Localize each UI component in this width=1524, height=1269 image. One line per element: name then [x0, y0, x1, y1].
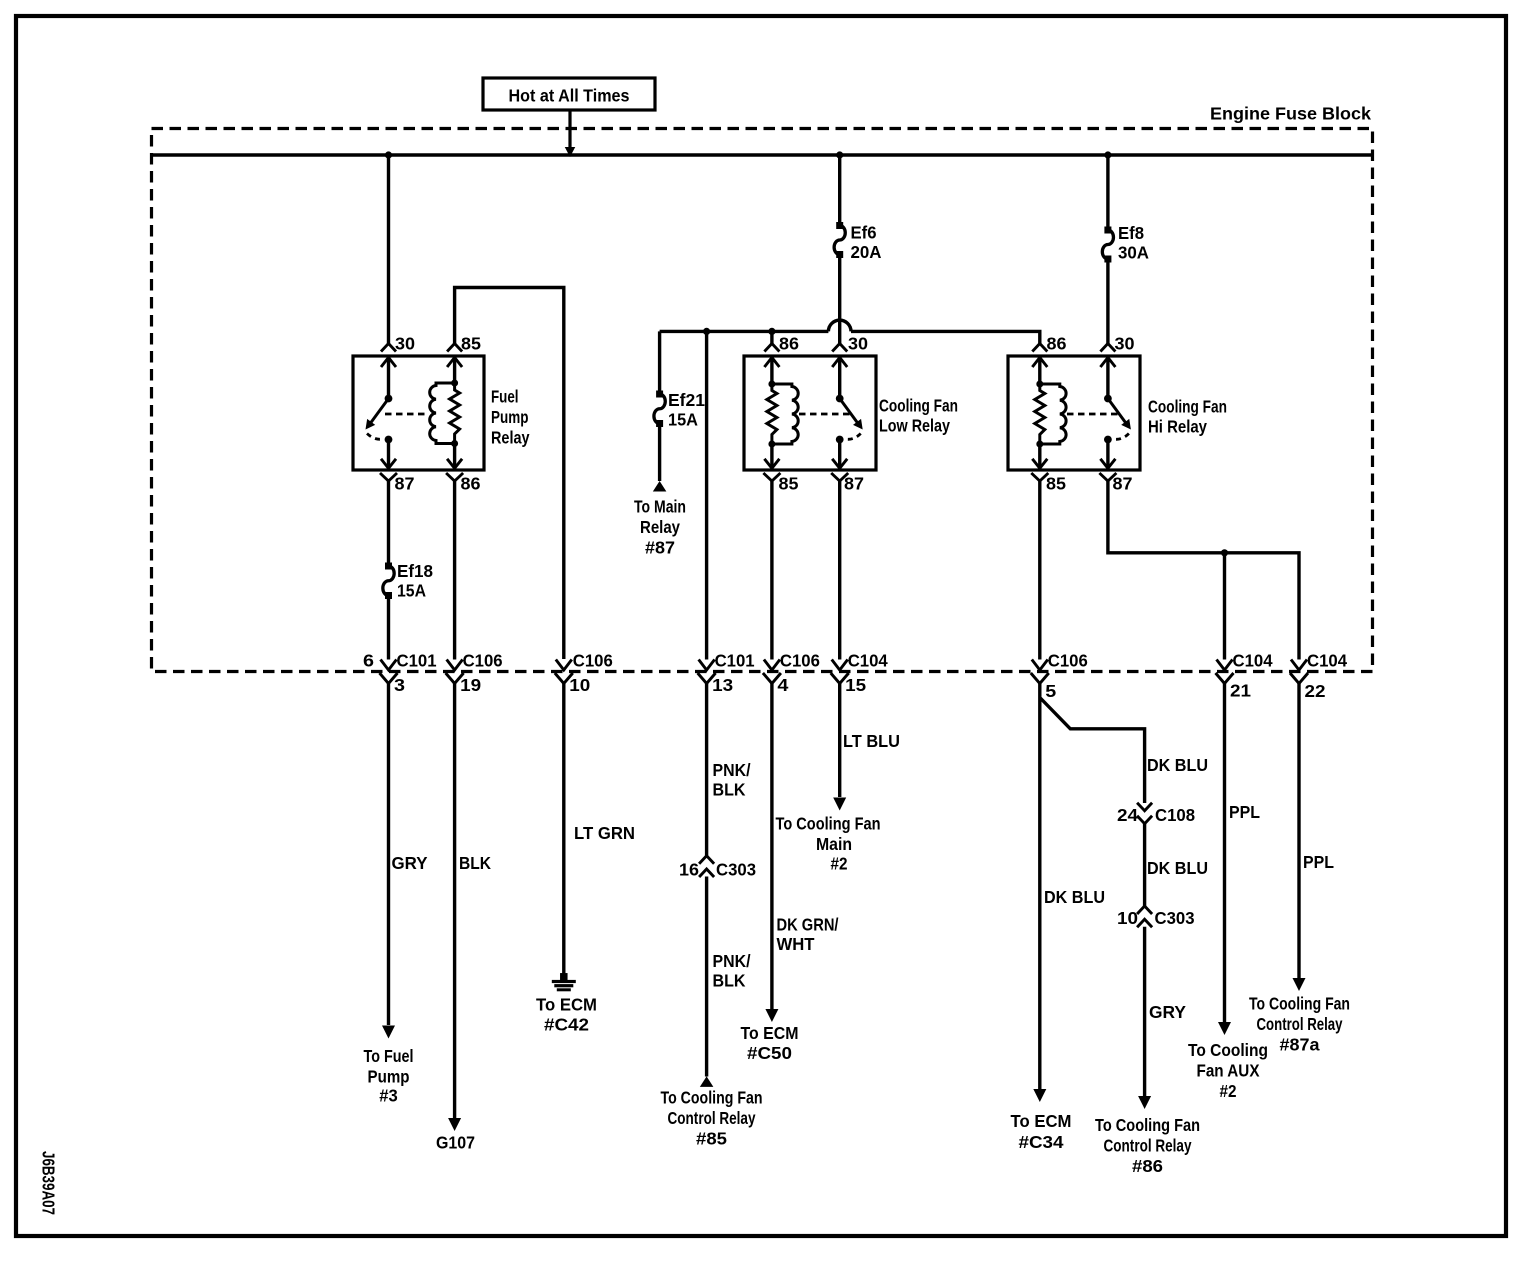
svg-text:85: 85 — [779, 474, 799, 494]
relay U3 box: Cooling Fan Hi Relay — [1008, 356, 1140, 470]
svg-text:Fan AUX: Fan AUX — [1197, 1061, 1260, 1081]
wire: pin 87 to fuse Ef18 — [387, 480, 390, 567]
svg-text:15A: 15A — [668, 410, 698, 430]
svg-text:#2: #2 — [831, 854, 848, 874]
svg-text:86: 86 — [1047, 334, 1067, 354]
relay coil (inductor) hi relay — [1040, 384, 1066, 444]
svg-text:DK BLU: DK BLU — [1147, 858, 1208, 878]
wire: pin 86 to coil (hi) — [1038, 356, 1041, 384]
svg-text:Hot at All Times: Hot at All Times — [509, 86, 630, 106]
svg-text:C104: C104 — [1307, 651, 1347, 671]
wire: C106-10 to ECM ground — [562, 684, 565, 975]
arrow: to fuel pump — [382, 1026, 395, 1039]
wire: bus to relay pin 30 — [387, 155, 390, 344]
label box: Hot at All Times — [483, 78, 655, 110]
svg-text:Pump: Pump — [368, 1067, 410, 1087]
connector C106 pin 19 — [447, 660, 463, 671]
relay coil resistor element (hi) — [1035, 384, 1045, 444]
svg-text:Pump: Pump — [491, 407, 529, 427]
wire hop over Ef6/pin30 wire (no connection) — [828, 320, 851, 331]
wire: C101-13 to connector C303 — [705, 684, 708, 856]
wire: relay coil feed line (to main relay fused feed) — [660, 330, 707, 333]
svg-text:Cooling Fan: Cooling Fan — [1148, 397, 1227, 417]
wire: coil feed line to cooling fan hi relay pin 86 — [851, 331, 1040, 343]
svg-text:BLK: BLK — [713, 780, 746, 800]
arrow: to cooling fan aux 2 — [1218, 1022, 1231, 1035]
wire: bus to fuse Ef8 — [1106, 155, 1109, 230]
relay actuation dashed link — [385, 413, 429, 416]
svg-text:30A: 30A — [1118, 243, 1149, 263]
svg-text:#85: #85 — [696, 1129, 727, 1149]
connector C101 pin 13 — [699, 660, 715, 671]
svg-text:WHT: WHT — [777, 934, 815, 954]
svg-text:C303: C303 — [716, 860, 756, 880]
wire: Hot at All Times feed drop — [568, 110, 571, 149]
junction: coil bottom (hi) — [1036, 441, 1043, 448]
junction: coil bottom (low) — [768, 441, 775, 448]
wire: low relay pin 85 to connector C106-4 — [770, 480, 773, 660]
svg-text:PPL: PPL — [1229, 802, 1260, 822]
svg-text:Ef18: Ef18 — [397, 561, 433, 581]
svg-text:GRY: GRY — [392, 853, 428, 873]
svg-text:Main: Main — [816, 834, 852, 854]
svg-text:G107: G107 — [436, 1133, 475, 1153]
relay coil resistor element (low) — [767, 384, 777, 444]
svg-text:C104: C104 — [848, 651, 888, 671]
svg-text:To ECM: To ECM — [741, 1023, 799, 1043]
svg-text:87: 87 — [844, 474, 864, 494]
relay U1 box: Fuel Pump Relay — [353, 356, 484, 470]
wire: C106-19 to ground G107 — [453, 684, 456, 1119]
svg-text:Ef8: Ef8 — [1118, 223, 1144, 243]
svg-text:To Cooling Fan: To Cooling Fan — [1249, 994, 1350, 1014]
arrow: to main relay (points up) — [653, 481, 667, 492]
svg-text:#C42: #C42 — [544, 1015, 589, 1035]
switch armature (hi) — [1108, 399, 1129, 427]
wire: branch from C106-5 to C108 column — [1040, 698, 1145, 804]
pin 85 entry arrowhead — [447, 358, 462, 368]
pin 30 entry arrowhead — [381, 358, 396, 368]
svg-text:To Main: To Main — [634, 497, 686, 517]
connector chevron below pin 87 (hi) — [1099, 473, 1116, 481]
connector chevron at pin 30 — [381, 344, 396, 352]
svg-text:J6B39A07: J6B39A07 — [39, 1151, 59, 1215]
pin 87 exit arrowhead — [381, 459, 396, 469]
svg-text:#86: #86 — [1132, 1156, 1163, 1176]
Engine Fuse Block dashed boundary — [152, 129, 1373, 672]
svg-text:86: 86 — [461, 474, 481, 494]
wire: C104-21 to cooling fan aux — [1223, 684, 1226, 1023]
switch stationary contact (low) — [836, 436, 844, 444]
connector chevron below pin 87 — [380, 473, 397, 481]
svg-text:22: 22 — [1305, 681, 1326, 701]
svg-text:19: 19 — [460, 675, 481, 695]
arrow: to cooling fan control relay 86 — [1138, 1096, 1151, 1109]
wire: Ef21 to main relay — [658, 424, 661, 482]
wire: pin 30 to switch pivot — [387, 356, 390, 399]
svg-text:C108: C108 — [1155, 805, 1195, 825]
svg-text:15: 15 — [845, 675, 866, 695]
junction: bus / fuse Ef6 — [836, 151, 843, 158]
svg-text:C106: C106 — [463, 651, 503, 671]
wire: hi relay pin 87 down and across — [1108, 480, 1299, 660]
connector chevron at low relay pin 86 — [764, 344, 779, 352]
wire: Ef8 to hi relay pin 30 — [1106, 259, 1109, 344]
wire: coil feed line toward hop — [772, 330, 829, 333]
connector C104 pin 15 — [832, 660, 848, 671]
arrow: to ECM #C50 — [765, 1009, 778, 1022]
wire: coil to pin 85 (low) — [770, 444, 773, 468]
svg-text:Ef21: Ef21 — [668, 390, 705, 410]
svg-text:GRY: GRY — [1149, 1002, 1186, 1022]
svg-text:To Cooling Fan: To Cooling Fan — [776, 814, 881, 834]
svg-text:C303: C303 — [1155, 908, 1195, 928]
wire: bus to fuse Ef6 — [838, 155, 841, 226]
svg-text:To ECM: To ECM — [1011, 1111, 1072, 1131]
wire: pin 30 to switch pivot (low) — [838, 356, 841, 399]
junction: feed / low relay pin 86 — [768, 328, 775, 335]
svg-text:Engine Fuse Block: Engine Fuse Block — [1210, 104, 1371, 124]
wire: stationary contact to pin 87 — [387, 440, 390, 469]
switch stationary contact (hi) — [1104, 436, 1112, 444]
svg-text:30: 30 — [395, 334, 415, 354]
pin 86 entry arrowhead (hi) — [1032, 358, 1047, 368]
svg-text:5: 5 — [1045, 681, 1056, 701]
svg-text:Ef6: Ef6 — [851, 223, 877, 243]
svg-text:C101: C101 — [715, 651, 755, 671]
svg-text:87: 87 — [1113, 474, 1133, 494]
svg-text:4: 4 — [777, 675, 788, 695]
svg-text:#C50: #C50 — [747, 1043, 792, 1063]
relay actuation dashed link (hi) — [1067, 413, 1119, 416]
wire: feed down to fuse Ef21 — [658, 331, 661, 394]
svg-text:15A: 15A — [397, 581, 426, 601]
svg-text:Cooling Fan: Cooling Fan — [879, 396, 958, 416]
connector C106 pin 4 — [764, 660, 780, 671]
wire: battery feed bus (Hot at All Times) — [152, 153, 1373, 156]
wire: stationary contact to pin 87 (hi) — [1106, 440, 1109, 469]
svg-text:#87a: #87a — [1280, 1035, 1320, 1055]
pin 86 exit arrowhead — [447, 459, 462, 469]
svg-text:C106: C106 — [1048, 651, 1088, 671]
svg-text:LT BLU: LT BLU — [843, 731, 900, 751]
svg-text:PNK/: PNK/ — [713, 951, 751, 971]
svg-text:Relay: Relay — [640, 517, 680, 537]
connector chevron at pin 85 — [447, 344, 462, 352]
svg-text:87: 87 — [395, 474, 415, 494]
switch throw dashed travel arc (hi) — [1112, 434, 1129, 440]
svg-text:30: 30 — [1115, 334, 1135, 354]
svg-text:30: 30 — [848, 334, 868, 354]
relay coil (inductor), parallel path — [430, 383, 455, 444]
pin 86 entry arrowhead (low) — [764, 358, 779, 368]
wire: C303-10 to control relay 86 — [1143, 927, 1146, 1096]
connector C106 pin 5 — [1032, 660, 1048, 671]
connector chevron below pin 85 (hi) — [1031, 473, 1048, 481]
connector C303 pin 16 (inline) — [699, 856, 714, 864]
switch throw dashed travel arc (low) — [844, 434, 861, 440]
svg-text:21: 21 — [1230, 681, 1251, 701]
connector C104 pin 21 — [1217, 660, 1233, 671]
svg-text:#87: #87 — [645, 538, 675, 558]
arrow: to ECM #C34 — [1033, 1089, 1046, 1102]
connector chevron below pin 87 (low) — [831, 473, 848, 481]
connector C303 pin 10 (inline) — [1137, 906, 1152, 914]
fuse Ef18 15A — [385, 563, 392, 570]
switch pivot contact (hi) — [1104, 395, 1112, 403]
svg-text:85: 85 — [461, 334, 481, 354]
switch pivot contact (low) — [836, 395, 844, 403]
junction: coil top — [451, 380, 458, 387]
wire: low relay pin 87 to connector C104-15 — [838, 480, 841, 660]
wire: C303-16 to control relay — [705, 877, 708, 1077]
junction: coil top (hi) — [1036, 381, 1043, 388]
wire: C101-3 to fuel pump — [387, 684, 390, 1026]
svg-text:BLK: BLK — [713, 971, 746, 991]
svg-text:DK BLU: DK BLU — [1147, 755, 1208, 775]
svg-text:20A: 20A — [851, 242, 882, 262]
arrow: feed into bus — [565, 147, 576, 157]
pin 30 entry arrowhead (low) — [832, 358, 847, 368]
pin 30 entry arrowhead (hi) — [1100, 358, 1115, 368]
svg-text:C104: C104 — [1233, 651, 1273, 671]
svg-text:DK BLU: DK BLU — [1044, 887, 1105, 907]
connector chevron at hi relay pin 86 — [1032, 344, 1047, 352]
pin 87 exit arrowhead (hi) — [1100, 459, 1115, 469]
svg-text:BLK: BLK — [459, 853, 491, 873]
pin 85 exit arrowhead (low) — [764, 459, 779, 469]
switch throw dashed travel arc — [367, 434, 384, 440]
relay actuation dashed link (low) — [799, 413, 851, 416]
junction: bus / fuel pump relay feed — [385, 151, 392, 158]
wire: C104-15 to cooling fan main — [838, 684, 841, 798]
svg-text:Hi Relay: Hi Relay — [1148, 417, 1207, 437]
arrow: to cooling fan control relay 87a — [1293, 978, 1306, 991]
junction: pin87 line / C104-21 branch — [1221, 549, 1228, 556]
svg-text:PNK/: PNK/ — [713, 760, 751, 780]
wire: C106-5 to ECM #C34 — [1038, 684, 1041, 1090]
relay coil resistor element — [450, 383, 460, 444]
wire: C104-22 to cooling fan control relay 87a — [1297, 684, 1300, 979]
svg-text:C106: C106 — [780, 651, 820, 671]
svg-text:13: 13 — [712, 675, 733, 695]
svg-text:C106: C106 — [573, 651, 613, 671]
switch armature (low) — [840, 399, 861, 427]
wire: hi relay pin 85 to connector C106-5 — [1038, 480, 1041, 660]
wire: Ef6 to low relay pin 30 (passes under hop) — [838, 255, 841, 344]
fuse Ef6 20A — [836, 222, 843, 229]
svg-text:To Cooling Fan: To Cooling Fan — [1095, 1115, 1200, 1135]
svg-text:#2: #2 — [1220, 1081, 1237, 1101]
svg-text:10: 10 — [569, 675, 590, 695]
svg-text:Control Relay: Control Relay — [1104, 1136, 1192, 1156]
switch pivot contact — [385, 395, 393, 403]
switch stationary contact — [385, 436, 393, 444]
svg-text:C101: C101 — [397, 651, 437, 671]
relay coil (inductor) low relay — [772, 384, 798, 444]
svg-text:PPL: PPL — [1303, 852, 1334, 872]
svg-text:16: 16 — [679, 860, 699, 880]
svg-text:Relay: Relay — [491, 428, 530, 448]
arrow: to cooling fan main 2 — [833, 798, 846, 811]
pin 85 exit arrowhead (hi) — [1032, 459, 1047, 469]
svg-text:DK GRN/: DK GRN/ — [777, 915, 839, 935]
wire: Ef18 to connector C101 — [387, 596, 390, 660]
svg-text:#C34: #C34 — [1019, 1132, 1064, 1152]
arrow: to G107 — [448, 1118, 461, 1131]
connector chevron below pin 85 (low) — [763, 473, 780, 481]
svg-text:86: 86 — [779, 334, 799, 354]
connector C101 pin 6/3 — [381, 660, 397, 671]
svg-text:LT GRN: LT GRN — [574, 823, 635, 843]
wire: feed junction to connector C101-13 — [705, 331, 708, 659]
wire: stationary contact to pin 87 (low) — [838, 440, 841, 469]
switch armature (movable contact) — [368, 399, 389, 427]
junction: coil top (low) — [768, 381, 775, 388]
svg-text:To Fuel: To Fuel — [364, 1046, 414, 1066]
svg-text:Low Relay: Low Relay — [879, 416, 950, 436]
wire: pin 30 to switch pivot (hi) — [1106, 356, 1109, 399]
wire: C106-4 to ECM — [770, 684, 773, 1010]
svg-text:85: 85 — [1046, 474, 1066, 494]
arrow: to cooling fan control relay 85 (points up) — [700, 1076, 714, 1087]
svg-text:6: 6 — [363, 651, 374, 671]
relay U2 box: Cooling Fan Low Relay — [744, 356, 876, 470]
fuse Ef21 15A — [656, 391, 663, 398]
connector C104 pin 22 — [1291, 660, 1307, 671]
wire: pin 85 to coil — [453, 356, 456, 383]
svg-text:Control Relay: Control Relay — [1257, 1014, 1343, 1034]
wire: coil to pin 86 — [453, 444, 456, 469]
wire: C108-24 to C303-10 — [1143, 824, 1146, 906]
connector C108 pin 24 (inline) — [1137, 803, 1152, 811]
connector chevron at low relay pin 30 — [832, 344, 847, 352]
connector C106 pin 10 — [556, 660, 572, 671]
svg-text:24: 24 — [1117, 805, 1138, 825]
junction: feed / PNK-BLK branch — [703, 328, 710, 335]
svg-text:Control Relay: Control Relay — [668, 1108, 756, 1128]
svg-text:To ECM: To ECM — [536, 995, 597, 1015]
svg-text:Fuel: Fuel — [491, 387, 519, 407]
svg-text:To Cooling Fan: To Cooling Fan — [661, 1088, 763, 1108]
wire: pin 86 to connector C106 — [453, 480, 456, 660]
svg-text:10: 10 — [1117, 908, 1138, 928]
svg-text:#3: #3 — [379, 1086, 398, 1106]
connector chevron below pin 86 — [446, 473, 463, 481]
connector chevron at hi relay pin 30 — [1100, 344, 1115, 352]
wire: pin 85 loop (up and over to C106-10 column) — [455, 288, 564, 660]
junction: bus / fuse Ef8 — [1104, 151, 1111, 158]
wire: pin 86 to coil (low) — [770, 356, 773, 384]
svg-text:3: 3 — [394, 675, 405, 695]
fuse Ef8 30A — [1104, 227, 1111, 234]
wire: coil feed line center — [707, 330, 772, 333]
wire: coil to pin 85 (hi) — [1038, 444, 1041, 468]
wire: feed line tap to low relay pin 86 — [770, 331, 773, 343]
wire: branch down to connector C104-21 — [1223, 553, 1226, 660]
ground symbol (ECM #C42) — [560, 973, 568, 981]
pin 87 exit arrowhead (low) — [832, 459, 847, 469]
junction: coil bottom — [451, 440, 458, 447]
svg-text:To Cooling: To Cooling — [1188, 1040, 1268, 1060]
